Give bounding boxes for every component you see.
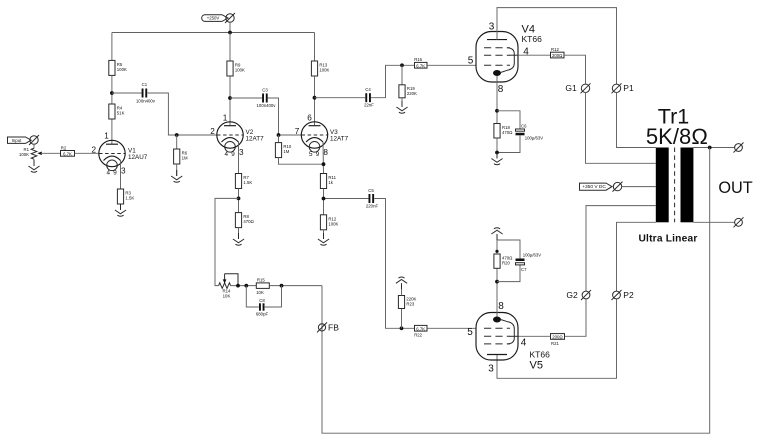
wire transformer bottom to P2 terminal [617,222,656,291]
svg-text:Ultra Linear: Ultra Linear [638,234,697,245]
svg-text:3: 3 [489,22,495,33]
ground up (V5 cathode) [491,228,502,240]
svg-text:100n400v: 100n400v [136,99,156,104]
wire V2 cathode to R7 [238,142,240,174]
+350V DC supply tag [580,183,613,190]
svg-text:12AU7: 12AU7 [128,154,148,161]
ground (R12) [318,233,329,245]
wire C1 to V2 grid [147,93,217,135]
potentiometer R14 10K [219,274,238,299]
wire V4 cathode pin 8 [496,76,498,124]
wire secondary top to OUT terminal [693,147,734,149]
svg-text:8: 8 [323,148,328,157]
junction V2 cathode feedback node [237,197,241,201]
terminal +350V [613,182,623,192]
potentiometer R1 100K [19,147,61,159]
junction R14 wiper node [236,284,240,288]
+250V supply tag [202,15,228,22]
resistor R19 220K [399,85,417,98]
svg-text:4: 4 [523,47,529,58]
svg-text:7: 7 [295,127,300,136]
pin labels 4 9 3 of V2 [224,148,244,158]
ground (R1) [28,160,39,172]
junction V3 grid / R10 [277,133,281,137]
V5 name label [530,350,551,372]
svg-text:1.5K: 1.5K [243,180,252,185]
resistor R3 1.5K [117,189,134,204]
wire node to C1 [112,92,142,94]
svg-text:12AT7: 12AT7 [246,136,265,143]
svg-text:P2: P2 [623,290,634,300]
svg-text:200Ω: 200Ω [552,335,562,340]
capacitor C4 22nF [364,87,374,108]
wire C6 bottom to ground node [497,135,520,152]
junction R19 top [400,63,404,67]
pin labels 4 9 3 of V1 [106,167,126,177]
svg-text:5: 5 [468,56,474,67]
junction V5 cathode bottom [495,280,499,284]
junction feedback takeoff [708,146,712,150]
svg-text:10K: 10K [256,290,264,295]
ground (R6) [171,170,182,182]
wire G2 terminal to R21 [565,299,587,336]
terminal OUT bottom [734,217,744,227]
triode V3 12AT7 [301,122,327,152]
svg-text:R15: R15 [257,278,265,283]
resistor R13 100K [311,61,329,76]
svg-text:220K: 220K [407,91,417,96]
svg-text:R23: R23 [406,302,414,307]
svg-text:200Ω: 200Ω [552,53,562,58]
wire V3 cathode node to C5 [324,198,369,200]
svg-text:C6: C6 [521,123,527,128]
wire R12 to G1 terminal [564,55,586,84]
svg-text:6.7K: 6.7K [416,63,425,68]
svg-text:3: 3 [121,167,126,176]
wire R19 to ground [401,98,403,107]
wire C7 top to ground branch [497,240,520,259]
resistor R18 470R [494,124,513,139]
svg-text:G1: G1 [565,83,577,93]
svg-text:8: 8 [498,301,504,312]
wire C5 node down to V5 grid line [374,199,414,329]
resistor R7 1.5K [235,174,252,189]
wire P2 terminal to V5 anode [497,299,617,379]
wire node to R6 [176,135,178,149]
resistor R15 10K [256,278,269,296]
resistor R23 220K [398,296,416,309]
wire C8 branch left [246,286,258,307]
wire V4 screen pin4 to R12 [518,54,551,56]
svg-text:100K: 100K [117,67,127,72]
svg-text:V5: V5 [530,360,543,372]
svg-text:+350 V DC: +350 V DC [582,184,606,190]
wire R9 to V2 anode pin 1 [229,76,231,126]
wire R15 to FB corner [269,285,322,287]
wire node to feedback pot R14 [215,198,239,285]
svg-text:4: 4 [106,170,110,177]
svg-text:KT66: KT66 [522,34,543,44]
svg-text:R20: R20 [502,261,510,266]
resistor R5 100K [109,60,127,75]
transformer Tr1 secondary winding [681,148,694,223]
svg-text:100K: 100K [235,68,245,73]
junction R23 bottom [400,326,404,330]
svg-text:KT66: KT66 [530,350,551,360]
wire C4 to V4 grid line [371,65,415,97]
junction rail/+250V [228,31,232,35]
terminal Input [29,135,39,145]
svg-text:100µ/63V: 100µ/63V [523,253,542,258]
wire node to C4 [315,97,366,99]
wire R10 to V3 cathode line [279,158,324,165]
svg-text:4: 4 [224,151,228,158]
svg-text:100K: 100K [19,152,29,157]
resistor R2 6.7K [61,146,75,157]
wire R11 to R12 [323,189,325,215]
junction V1 anode node [110,91,114,95]
wire node to C6 top [497,111,520,129]
svg-text:P1: P1 [623,83,634,93]
capacitor C1 100n/400v [136,82,156,104]
svg-text:R21: R21 [551,341,559,346]
svg-text:9: 9 [316,151,320,158]
svg-text:R12: R12 [551,47,559,52]
junction R6 top [175,133,179,137]
svg-text:1M: 1M [182,156,188,161]
wire R12 to ground [323,230,325,239]
wire terminal to HT rail [229,22,231,33]
svg-text:5K/8Ω: 5K/8Ω [646,124,708,149]
junction V3 anode node [313,96,317,100]
svg-text:C5: C5 [368,188,374,193]
svg-text:R2: R2 [61,146,67,151]
svg-text:4: 4 [521,338,527,349]
wire rail to R5 [111,33,113,61]
wire R13 to V3 anode pin 6 [314,76,316,126]
wire C3 to V3 grid pin 7 [268,98,302,135]
junction R10 / V3 cathode [322,162,326,166]
wire P1 terminal to transformer top [617,92,656,147]
pin labels 5 9 8 of V3 [309,148,328,158]
svg-text:100K: 100K [319,68,329,73]
wire R8 to ground [238,228,240,239]
resistor R22 6.7K [414,325,427,337]
svg-text:5: 5 [467,327,473,338]
wire rail to R13 [314,33,316,62]
terminal G1 [581,83,591,93]
svg-text:100µ/63V: 100µ/63V [525,136,544,141]
svg-text:R22: R22 [414,333,422,338]
svg-text:470Ω: 470Ω [502,130,512,135]
ground (R3) [115,204,126,216]
resistor R21 200R [551,334,565,346]
Input tag [8,137,32,143]
resistor R20 470R [494,254,513,268]
svg-text:680pF: 680pF [256,311,269,316]
V3 name label [330,129,349,143]
svg-text:R16: R16 [414,57,422,62]
V2 name label [246,129,265,143]
svg-text:Input: Input [12,138,22,143]
wire input terminal to R1 [33,144,35,149]
V4 name label [522,24,543,45]
resistor R12 200R [551,47,565,58]
capacitor C8 680pF [256,298,269,316]
wire R22 to V5 grid pin 5 [427,327,476,329]
wire FB corner down to bottom run [322,148,710,434]
resistor R11 1k [320,174,336,189]
wire R21 to V5 screen pin 4 [518,335,551,337]
terminal G2 [581,290,591,300]
junction C8 left node [244,284,248,288]
svg-text:C1: C1 [142,82,148,87]
svg-text:1: 1 [223,114,228,123]
wire R6 to ground [176,164,178,176]
wire +350V terminal to transformer centre tap [621,186,656,188]
junction V4 cathode top [495,109,499,113]
svg-text:8: 8 [498,84,504,95]
transformer Tr1 core dashed line [674,148,676,223]
svg-text:1M: 1M [283,149,289,154]
capacitor C6 100u/63V electrolytic [516,123,544,140]
capacitor C3 100n/400v [257,88,277,109]
wire V1 cathode to R3 [120,161,122,190]
wire G1 terminal to transformer tap [586,92,656,163]
tetrode V4 KT66 [476,32,518,83]
terminal +250V [225,13,235,23]
triode V2 12AT7 [217,122,243,152]
svg-text:2: 2 [92,146,97,155]
wire V5 cathode pin 8 up [496,268,498,316]
svg-text:OUT: OUT [718,179,752,197]
wire R14 to R15 [231,285,257,287]
wire R20 to ground [496,234,498,254]
wire R5 to node / R4 [111,75,113,104]
ground (V4 cathode) [491,153,502,165]
svg-text:3: 3 [239,148,244,157]
wire R23 to ground [401,283,403,295]
svg-text:220nF: 220nF [366,204,379,209]
svg-text:C3: C3 [262,88,268,93]
ground up (R23) [396,277,407,289]
svg-text:6.7K: 6.7K [63,151,72,156]
V1 name label [128,148,148,162]
wire R16 to V4 grid pin 5 [427,64,476,66]
svg-text:+250V: +250V [207,16,220,21]
junction V3 cathode output node [322,197,326,201]
capacitor C7 100u/63V electrolytic [516,253,542,272]
svg-text:12AT7: 12AT7 [330,136,349,143]
wire R7 to R8 [238,189,240,213]
terminal P2 [612,290,622,300]
svg-text:6.7K: 6.7K [416,326,425,331]
svg-text:2: 2 [210,127,215,136]
svg-text:FB: FB [328,323,339,333]
resistor R16 6.7K [414,57,427,68]
transformer Tr1 primary winding [656,148,669,223]
wire V3 cathode to R11 [322,142,325,174]
wire R1 to ground [33,159,35,166]
svg-text:C4: C4 [365,87,371,92]
svg-text:1.5K: 1.5K [125,196,134,201]
resistor R6 1M [174,149,188,164]
HT rail +250V [112,32,315,34]
terminal OUT top [734,143,744,153]
wire R18 to ground [496,138,498,159]
terminal P1 [612,83,622,93]
wire node to R10 [278,135,280,143]
svg-text:100n400v: 100n400v [257,103,277,108]
svg-text:10K: 10K [223,294,231,299]
resistor R4 51K [109,104,125,119]
svg-text:22nF: 22nF [364,103,374,108]
junction C8 right node [280,284,284,288]
resistor R9 100K [227,61,245,76]
ground (R19) [396,101,407,113]
svg-text:6: 6 [307,114,312,123]
resistor R8 470R [235,213,253,228]
wire V4 anode to P1 terminal [497,8,617,85]
ground (R8) [233,233,244,245]
svg-text:G2: G2 [566,290,578,300]
svg-text:1: 1 [104,132,109,141]
svg-text:9: 9 [113,170,117,177]
resistor R12 100K [320,215,338,230]
wire transformer G2 tap to G2 terminal [586,206,656,292]
triode V1 12AU7 [99,140,125,170]
junction R20 top [495,250,498,253]
junction V2 anode node [228,96,232,100]
svg-text:3: 3 [488,364,494,375]
tetrode V5 KT66 [476,313,518,361]
wire C8 branch right [265,286,282,307]
wire node to R19 [401,65,403,85]
svg-text:C8: C8 [259,298,265,303]
capacitor C5 220nF [366,188,379,209]
wire node to C3 [230,97,262,99]
wire R3 to ground [120,204,122,210]
terminal FB [317,322,327,332]
svg-text:100K: 100K [328,221,338,226]
svg-text:C7: C7 [521,267,527,272]
wire R4 to V1 anode pin 1 [111,119,113,144]
svg-text:51K: 51K [117,111,125,116]
wire node to R23 [401,309,403,329]
wire secondary bottom to OUT terminal [693,221,734,223]
resistor R10 1M [275,143,291,158]
svg-text:5: 5 [309,151,313,158]
wire rail to R9 [229,33,231,62]
svg-text:470Ω: 470Ω [243,219,253,224]
svg-text:9: 9 [231,151,235,158]
junction V4 cathode bottom [495,151,499,155]
wire R2 to V1 grid pin 2 [75,152,100,154]
wire node to C7 bottom [497,265,520,282]
